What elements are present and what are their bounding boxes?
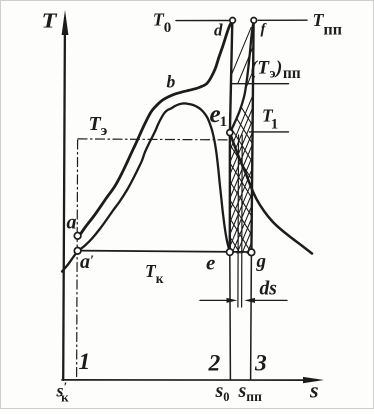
hatched area dS band: [228, 18, 255, 323]
svg-text:e: e: [206, 251, 215, 275]
ds arrow left: [200, 298, 237, 303]
wire Tpp level line: [258, 19, 307, 21]
node a: [74, 233, 81, 240]
node a-prime: [74, 248, 81, 255]
svg-text:ds: ds: [260, 279, 277, 300]
ds arrow right: [244, 298, 287, 303]
T axis: [62, 10, 69, 380]
svg-text:2: 2: [208, 351, 221, 377]
wire Tk level line a-prime to g: [79, 251, 251, 252]
wire s0 vertical line d to axis: [230, 21, 233, 380]
wire s'k dash-dot vertical: [77, 140, 78, 379]
s axis: [62, 377, 324, 383]
wire ds strip left line: [237, 135, 240, 307]
node d: [230, 18, 236, 24]
svg-text:1: 1: [79, 349, 91, 375]
svg-text:s: s: [309, 378, 319, 403]
wire T1 level line: [250, 131, 289, 133]
svg-text:3: 3: [254, 351, 267, 377]
node e: [227, 249, 234, 256]
wire T0 level line: [176, 20, 229, 22]
curve e1 to f reheat isobar: [230, 22, 254, 133]
curve a-prime dome to e thin: [62, 103, 230, 271]
wire (Te)pp level line: [232, 83, 289, 85]
svg-text:b: b: [167, 72, 176, 92]
curve a-b-d saturation boundary thick: [78, 21, 233, 239]
wire Te dash-dot level line: [78, 139, 230, 140]
curve e1 vapor line down right: [230, 133, 312, 254]
wire ds strip right line: [241, 135, 244, 307]
wire spp vertical line f to axis: [251, 21, 254, 380]
node f: [251, 18, 257, 24]
svg-text:g: g: [256, 251, 267, 272]
node g: [248, 249, 255, 256]
svg-text:a: a: [67, 212, 77, 234]
svg-text:T: T: [42, 9, 58, 33]
svg-text:d: d: [214, 21, 223, 40]
node e1: [227, 130, 233, 136]
